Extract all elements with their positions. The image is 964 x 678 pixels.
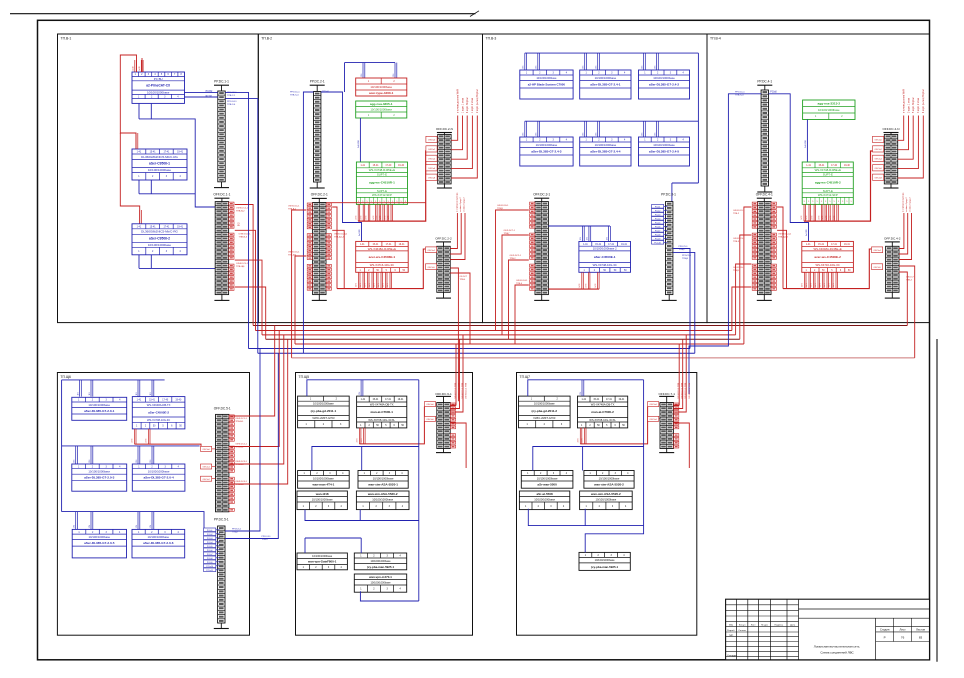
svg-text:aSer-DL385-G7-2.0-4: aSer-DL385-G7-2.0-4 [143,476,174,480]
svg-text:(cy-pba-gd-2011-1: (cy-pba-gd-2011-1 [311,409,337,413]
svg-text:10/100/1000base: 10/100/1000base [596,497,617,501]
svg-text:ТПВ-3: ТПВ-3 [906,280,913,282]
svg-text:Солоха: Солоха [738,630,746,632]
svg-text:ОФФ.DC3-1: ОФФ.DC3-1 [733,237,745,240]
svg-text:wan-vpn-GateF800-1: wan-vpn-GateF800-1 [307,560,337,564]
svg-text:aSer-C4500E-2: aSer-C4500E-2 [148,410,169,414]
svg-text:4 корп. Портал: 4 корп. Портал [467,97,469,113]
svg-text:ТПЩ7: ТПЩ7 [232,532,239,534]
svg-text:10/100/1000base: 10/100/1000base [534,497,555,501]
svg-text:ТПВ-Щ1-4: ТПВ-Щ1-4 [778,236,789,238]
svg-text:1Гб: 1Гб [654,66,656,69]
svg-text:WS-X4708-10G-3C: WS-X4708-10G-3C [147,418,170,422]
svg-text:10/100/1000base: 10/100/1000base [818,108,840,112]
svg-text:№ док: № док [761,623,767,626]
svg-text:ТПВ-2-1: ТПВ-2-1 [227,95,236,97]
svg-text:5: 5 [821,201,822,203]
svg-text:PC/a6: PC/a6 [655,226,661,228]
svg-text:10/100/1000base: 10/100/1000base [313,476,334,480]
svg-text:WS-X4712-SFP: WS-X4712-SFP [818,193,838,197]
svg-text:1-41: 1-41 [806,165,811,167]
svg-text:к серверам аренда: к серверам аренда [457,192,459,212]
svg-text:19-41: 19-41 [399,244,406,246]
svg-text:1 корп. 1 этаж: 1 корп. 1 этаж [462,98,464,113]
svg-text:ТПЩ6: ТПЩ6 [682,258,689,260]
svg-text:15-41: 15-41 [149,399,156,401]
svg-text:ТПВ-Щ1-4: ТПВ-Щ1-4 [334,236,345,238]
svg-text:ОФС/а5: ОФС/а5 [427,266,435,269]
svg-text:OFF.DC.2-N: OFF.DC.2-N [436,127,453,131]
svg-text:10/100/1000base: 10/100/1000base [148,470,170,474]
svg-text:19-41: 19-41 [398,399,405,401]
svg-text:OFF.DC.7-1: OFF.DC.7-1 [658,392,675,396]
svg-text:PC/a8: PC/a8 [207,558,213,560]
svg-text:ТПВ-4: ТПВ-4 [516,283,523,285]
svg-text:wan-t218: wan-t218 [315,492,329,496]
svg-text:ОФФ.DC1-1 ТПВ: ОФФ.DC1-1 ТПВ [454,382,457,399]
svg-text:10/100/1000base: 10/100/1000base [536,143,558,147]
svg-text:ОФС/а2: ОФС/а2 [874,148,882,151]
svg-text:1Гб: 1Гб [89,525,91,528]
svg-text:PC/a9: PC/a9 [207,562,213,564]
svg-text:1Гб: 1Гб [596,133,598,136]
svg-text:17-41: 17-41 [608,244,615,246]
svg-text:DL360G8b2NIC5-Mb/C-RG: DL360G8b2NIC5-Mb/C-RG [141,155,178,159]
svg-text:1Гб: 1Гб [583,133,585,136]
svg-text:ОФС/а0: ОФС/а0 [202,448,210,451]
svg-text:ТПВ-В-1: ТПВ-В-1 [235,421,244,423]
svg-text:2хСЕ: 2хСЕ [133,65,135,70]
svg-text:19-40: 19-40 [844,165,851,167]
svg-text:ГИП: ГИП [729,635,734,637]
svg-text:PC/a2: PC/a2 [655,210,661,212]
svg-text:1-41: 1-41 [137,152,142,154]
svg-text:ТП.Щ5: ТП.Щ5 [299,375,310,379]
svg-text:PC/a5: PC/a5 [655,222,661,224]
svg-text:ОФФ.DC4-1: ОФФ.DC4-1 [235,480,247,483]
svg-text:ОФС/а0: ОФС/а0 [426,403,434,406]
svg-text:PC/a8: PC/a8 [655,234,661,236]
svg-text:Дата: Дата [790,624,796,626]
svg-text:WS-X4748A-DB-TX: WS-X4748A-DB-TX [591,402,615,406]
svg-text:ТПВ-Щ6: ТПВ-Щ6 [288,255,297,257]
svg-text:PP.DC4-1: PP.DC4-1 [262,536,272,538]
svg-text:17-41: 17-41 [606,399,613,401]
svg-text:1Гб: 1Гб [606,237,608,240]
svg-text:ОФС/а4: ОФС/а4 [427,249,435,252]
svg-text:ТПВ-Щ6: ТПВ-Щ6 [236,266,245,268]
svg-text:17-40: 17-40 [162,399,169,401]
svg-text:1-41: 1-41 [581,399,586,401]
svg-text:WS-X4716-10G-3C: WS-X4716-10G-3C [370,263,394,267]
svg-text:VWIC-2MFT-G703: VWIC-2MFT-G703 [533,416,556,420]
svg-text:PC/a10: PC/a10 [654,242,662,244]
svg-text:1Гб: 1Гб [136,392,138,395]
svg-text:15-41: 15-41 [150,226,157,228]
svg-text:aSer-DL385-G7-2.0-3: aSer-DL385-G7-2.0-3 [84,476,115,480]
svg-text:10/100/1000base: 10/100/1000base [312,554,333,558]
svg-text:aSr-at-5508: aSr-at-5508 [537,492,554,496]
svg-text:acer-type-4260-1: acer-type-4260-1 [369,91,394,95]
svg-text:2х10ГЕ: 2х10ГЕ [806,229,808,236]
svg-text:ТП.В-1: ТП.В-1 [61,36,72,40]
svg-text:ТПВ-В-2: ТПВ-В-2 [235,446,244,448]
svg-text:WS-X6708-10G-3CXL: WS-X6708-10G-3CXL [589,418,616,422]
svg-text:ОФС/а0: ОФС/а0 [874,139,882,142]
svg-text:10/100/1000base: 10/100/1000base [312,497,333,501]
svg-text:ОФФ.DC6-1: ОФФ.DC6-1 [733,266,745,269]
svg-text:ТП.В-3: ТП.В-3 [486,36,497,40]
svg-text:DL360G8b2NIC5-Mb/C-RG: DL360G8b2NIC5-Mb/C-RG [141,230,178,234]
svg-text:ОФС/а8: ОФС/а8 [428,176,436,179]
svg-text:OFF.DC.2-1: OFF.DC.2-1 [311,193,328,197]
svg-text:1Гб: 1Гб [77,392,79,395]
svg-text:5 корп. Портал: 5 корп. Портал [913,97,915,113]
svg-text:2х10GE: 2х10GE [358,140,360,148]
svg-text:PP.DC.3-1: PP.DC.3-1 [661,193,676,197]
svg-text:ОФС/а4: ОФС/а4 [874,157,882,160]
svg-text:ТП.Щ6: ТП.Щ6 [60,375,71,379]
svg-text:17-41: 17-41 [386,244,393,246]
svg-text:10/100/1000base: 10/100/1000base [653,143,675,147]
svg-text:Изм: Изм [729,624,734,626]
svg-text:10/100/1000base: 10/100/1000base [147,535,169,539]
svg-text:стойка 6 ряд 2: стойка 6 ряд 2 [462,197,465,212]
svg-text:5: 5 [842,201,843,203]
svg-text:4 корп. (шлюз) Портал: 4 корп. (шлюз) Портал [923,88,925,113]
svg-text:1Гб: 1Гб [596,66,598,69]
svg-text:10/100/1000base 2: 10/100/1000base 2 [593,247,617,251]
svg-text:ОФС/а0: ОФС/а0 [650,418,658,421]
svg-text:1-41: 1-41 [806,244,811,246]
svg-text:1Гб: 1Гб [523,133,525,136]
svg-text:1Гб: 1Гб [641,66,643,69]
svg-text:ОФФ.DC3-1: ОФФ.DC3-1 [239,232,252,235]
svg-text:к серверам аренда: к серверам аренда [903,192,905,212]
svg-text:10/100/1000base: 10/100/1000base [599,476,620,480]
svg-text:ОФФ.DC5-1: ОФФ.DC5-1 [236,262,249,265]
svg-text:PC BU: PC BU [154,77,163,81]
svg-text:19-41: 19-41 [621,244,628,246]
svg-text:aSer-DL385-G7-2.4-5: aSer-DL385-G7-2.4-5 [649,149,680,153]
svg-text:1Гб: 1Гб [89,392,91,395]
svg-text:ОФФ.DC1-4-1: ОФФ.DC1-4-1 [778,232,792,235]
svg-text:man-at-C7600-2: man-at-C7600-2 [591,410,614,414]
svg-text:ТПЩ5: ТПЩ5 [733,270,740,272]
svg-text:OFF.DC.4-2: OFF.DC.4-2 [884,236,901,240]
svg-text:PP.DC1-1: PP.DC1-1 [735,92,745,94]
svg-text:PP.DC3-1: PP.DC3-1 [232,529,242,531]
svg-text:WS-X6708-10G-3CXL: WS-X6708-10G-3CXL [368,418,395,422]
svg-text:1Гб: 1Гб [654,133,656,136]
svg-text:ОФФ.DC2-1 ТПВ: ОФФ.DC2-1 ТПВ [684,382,687,399]
svg-text:ОФС/а8: ОФС/а8 [874,176,882,179]
svg-text:10/100/1000base: 10/100/1000base [373,476,394,480]
svg-text:aSer-DL385-G7-2.4-3: aSer-DL385-G7-2.4-3 [531,149,562,153]
svg-text:aSer-DL385-G7-2.0-6: aSer-DL385-G7-2.0-6 [143,541,174,545]
svg-text:ТПЩ6: ТПЩ6 [679,249,686,251]
svg-text:Локальная вычислительная сеть.: Локальная вычислительная сеть. [814,645,861,649]
svg-text:10/100/1000base: 10/100/1000base [595,76,617,80]
svg-text:aSer-DL385-G7-2.4-2: aSer-DL385-G7-2.4-2 [649,82,680,86]
svg-text:стойка 6 ряд 2: стойка 6 ряд 2 [908,197,911,212]
svg-text:ТПВ-В-1: ТПВ-В-1 [288,209,297,211]
svg-text:PC/a5: PC/a5 [207,546,213,548]
svg-text:10/100/1000base: 10/100/1000base [88,403,110,407]
svg-text:1-41: 1-41 [583,244,588,246]
svg-text:1-41: 1-41 [137,399,142,401]
svg-text:ТП.В-4: ТП.В-4 [710,36,721,40]
svg-text:ОФС/а4: ОФС/а4 [873,249,881,252]
svg-text:a2-PlineCAT-CX: a2-PlineCAT-CX [146,84,171,88]
svg-text:1Гб: 1Гб [641,133,643,136]
svg-text:1-41: 1-41 [360,165,365,167]
svg-text:к точкам доступа Wi-Fi: к точкам доступа Wi-Fi [458,88,460,113]
svg-text:aSer-DL385-G7-2.4-4: aSer-DL385-G7-2.4-4 [590,149,621,153]
svg-text:WS-X4748-10G-3C: WS-X4748-10G-3C [593,263,617,267]
svg-text:5: 5 [851,201,852,203]
svg-text:1Гб: 1Гб [523,66,525,69]
svg-text:10/100/1000base: 10/100/1000base [595,558,616,562]
svg-text:ТПВ-В-3: ТПВ-В-3 [235,464,244,466]
svg-text:1Гб: 1Гб [150,460,152,463]
svg-text:PC/a7: PC/a7 [207,554,213,556]
svg-text:5: 5 [829,201,830,203]
svg-text:ТПВ-3-4: ТПВ-3-4 [227,104,236,106]
svg-text:3 корп. 2 этаж: 3 корп. 2 этаж [918,98,920,113]
svg-text:Р: Р [884,635,886,639]
svg-text:ОФ.DC7: ОФ.DC7 [906,276,915,279]
svg-text:(cy-pba-man-5925-1: (cy-pba-man-5925-1 [591,565,619,569]
svg-text:PC/a9: PC/a9 [655,238,661,240]
svg-text:OFF.DC.3-1: OFF.DC.3-1 [533,193,550,197]
svg-text:17-41: 17-41 [831,244,838,246]
svg-text:agg-ws-C4510R-1: agg-ws-C4510R-1 [369,181,395,185]
svg-text:ОФФ.DC1-4-1: ОФФ.DC1-4-1 [334,232,348,235]
svg-text:PP.DC.1-1: PP.DC.1-1 [214,80,229,84]
svg-text:1-41: 1-41 [360,244,365,246]
svg-text:19-40: 19-40 [175,399,182,401]
svg-text:a2-HP Blade System C7000: a2-HP Blade System C7000 [528,82,566,86]
svg-text:aSer-C4500E-1: aSer-C4500E-1 [594,255,616,259]
svg-text:WS-X4648A-DB-TX: WS-X4648A-DB-TX [147,403,171,407]
svg-text:ТПВ-В-3: ТПВ-В-3 [239,236,248,238]
svg-text:1Гб: 1Гб [580,237,582,240]
svg-text:PC/a7: PC/a7 [655,230,661,232]
svg-text:10/100/1000base: 10/100/1000base [595,143,617,147]
svg-text:PC/a4: PC/a4 [207,542,213,544]
svg-text:PP.DC5-1: PP.DC5-1 [682,255,692,257]
svg-text:WS-X4648A-RJ45E+E: WS-X4648A-RJ45E+E [813,247,841,251]
svg-text:ОФФ.DC1-1 ТПВ: ОФФ.DC1-1 ТПВ [457,382,460,399]
svg-text:1Гб: 1Гб [580,392,582,395]
svg-text:10/100/1000base: 10/100/1000base [313,402,334,406]
svg-text:SUP7-E: SUP7-E [823,172,833,176]
svg-text:1Гб: 1Гб [536,133,538,136]
svg-text:ОФФ.DC6-1: ОФФ.DC6-1 [497,204,509,207]
svg-text:10/100/1000base: 10/100/1000base [370,580,391,584]
svg-text:5: 5 [834,201,835,203]
svg-text:acer-ws-C4506E-1: acer-ws-C4506E-1 [369,255,396,259]
svg-text:ОФС/а2: ОФС/а2 [428,148,436,151]
svg-text:10/100/1000base: 10/100/1000base [536,76,557,80]
svg-text:19-41: 19-41 [844,244,851,246]
svg-text:10/100/1000base: 10/100/1000base [88,535,110,539]
svg-text:ОФС/а6: ОФС/а6 [428,167,436,170]
svg-text:1Гб: 1Гб [583,66,585,69]
svg-text:к точкам доступа Wi-Fi: к точкам доступа Wi-Fi [904,88,906,113]
svg-text:1Гб: 1Гб [150,392,152,395]
svg-text:PC/a10: PC/a10 [206,566,214,568]
svg-text:10/100/1000base: 10/100/1000base [537,476,558,480]
svg-text:acer-ws-C4506E-2: acer-ws-C4506E-2 [814,255,841,259]
svg-text:OFF.DC.5-1: OFF.DC.5-1 [214,407,231,411]
svg-text:ОФ.DC7: ОФ.DC7 [460,275,469,278]
svg-text:ОФФ.DC7-1: ОФФ.DC7-1 [504,229,516,232]
svg-text:15-41: 15-41 [593,399,600,401]
svg-text:wan-man-4T4-1: wan-man-4T4-1 [311,483,334,487]
svg-text:(cy-pba-man-5925-1: (cy-pba-man-5925-1 [367,565,395,569]
svg-text:Лист: Лист [900,627,907,631]
svg-text:ОФС/а0: ОФС/а0 [426,418,434,421]
svg-text:10/100/1000base: 10/100/1000base [147,90,170,94]
svg-text:agg-nsa-3305-1: agg-nsa-3305-1 [370,102,393,106]
svg-text:10/100/1000base: 10/100/1000base [148,243,172,247]
svg-text:10/100/1000base: 10/100/1000base [370,559,391,563]
svg-text:(cy-pba-gd-2011-2: (cy-pba-gd-2011-2 [532,409,558,413]
svg-text:WS-X4648A-RJ45E+E: WS-X4648A-RJ45E+E [368,247,396,251]
svg-text:ТПВ-2: ТПВ-2 [510,258,517,260]
svg-text:PC/a4: PC/a4 [655,218,661,220]
svg-text:19-41: 19-41 [177,226,184,228]
svg-text:1Гб: 1Гб [536,66,538,69]
svg-text:1Гб: 1Гб [587,237,589,240]
svg-text:SUP7-E: SUP7-E [377,172,387,176]
svg-text:PC/a0: PC/a0 [770,92,777,94]
svg-text:Схема соединений ЛВС: Схема соединений ЛВС [820,651,854,655]
svg-text:ОФФ.DC3-1: ОФФ.DC3-1 [235,460,247,463]
svg-text:ОФФ.DC4-1: ОФФ.DC4-1 [516,279,528,282]
svg-text:VWIC-2MFT-G703: VWIC-2MFT-G703 [312,416,335,420]
svg-text:Листов: Листов [916,627,926,631]
svg-text:PC/a1: PC/a1 [655,206,661,208]
svg-text:OFF.DC.4-N: OFF.DC.4-N [882,127,899,131]
svg-text:PP.DC.4-1: PP.DC.4-1 [757,80,772,84]
svg-text:17-41: 17-41 [163,226,170,228]
svg-text:17-41: 17-41 [385,399,392,401]
svg-text:10/100/1000base: 10/100/1000base [148,168,172,172]
svg-text:wan-sim-ASA-5520-2: wan-sim-ASA-5520-2 [367,492,398,496]
svg-text:PP.DC.2-1: PP.DC.2-1 [310,80,325,84]
svg-text:Лист: Лист [751,624,756,626]
svg-text:1Гб: 1Гб [136,460,138,463]
svg-text:10/100/1000base: 10/100/1000base [534,402,555,406]
svg-text:WS-X4712-SFP: WS-X4712-SFP [372,193,392,197]
svg-text:15-41: 15-41 [818,165,825,167]
svg-text:2х10GE: 2х10GE [805,140,807,148]
svg-text:5: 5 [808,201,809,203]
svg-text:1Гб: 1Гб [89,460,91,463]
svg-text:1Гб: 1Гб [136,525,138,528]
svg-text:wan-sim-ASA-5520-2: wan-sim-ASA-5520-2 [593,483,624,487]
svg-text:aSer-C9506-1: aSer-C9506-1 [149,162,170,166]
svg-text:OFF.DC.1-1: OFF.DC.1-1 [213,193,230,197]
svg-text:10/100/1000base: 10/100/1000base [653,76,675,80]
svg-text:17-41: 17-41 [163,152,170,154]
svg-text:man-at-C7600-1: man-at-C7600-1 [371,410,394,414]
svg-text:ОФФ.DC1-1 ТПВ: ОФФ.DC1-1 ТПВ [465,382,468,399]
svg-text:10/100/1000base: 10/100/1000base [370,85,392,89]
svg-text:1Гб: 1Гб [359,392,361,395]
svg-text:15-41: 15-41 [595,244,602,246]
svg-text:agg-ws-C4510R-2: agg-ws-C4510R-2 [815,181,841,185]
svg-text:5: 5 [846,201,847,203]
svg-text:Кол.уч: Кол.уч [739,624,746,626]
svg-text:agg-nsa-3313-2: agg-nsa-3313-2 [818,101,841,105]
svg-text:3 корп. 1 этаж: 3 корп. 1 этаж [908,98,910,113]
svg-text:PP.DC5-1: PP.DC5-1 [679,246,689,248]
svg-text:aSer-DL385-G7-2.4-1: aSer-DL385-G7-2.4-1 [590,82,621,86]
svg-text:PC/a3: PC/a3 [207,538,213,540]
svg-text:ОФФ.DC2-1: ОФФ.DC2-1 [510,254,522,257]
svg-text:2хСЕ: 2хСЕ [139,65,141,70]
svg-text:aSr-wan-5500: aSr-wan-5500 [537,483,557,487]
svg-text:ТПВ-В-4: ТПВ-В-4 [235,484,244,486]
svg-text:Подпись: Подпись [774,624,784,626]
svg-text:WS-X4748A-DB-TX: WS-X4748A-DB-TX [370,402,394,406]
svg-text:17-40: 17-40 [385,165,392,167]
svg-text:1-41: 1-41 [137,226,142,228]
svg-text:ОФС/а0: ОФС/а0 [650,403,658,406]
svg-text:PC/a3: PC/a3 [655,214,661,216]
svg-text:PC/a1: PC/a1 [207,530,213,532]
svg-text:1Гб: 1Гб [150,525,152,528]
svg-text:PP.DC1-1: PP.DC1-1 [290,92,300,94]
svg-text:PP.DC4-1: PP.DC4-1 [227,101,237,103]
svg-text:aSer-DL385-G7-2.0-1: aSer-DL385-G7-2.0-1 [84,409,115,413]
svg-text:ТПВ-В-2: ТПВ-В-2 [236,211,245,213]
svg-text:ОФС/а1: ОФС/а1 [202,466,210,469]
svg-text:ОФФ.DC2-1: ОФФ.DC2-1 [733,209,745,212]
svg-text:2х10ГЕ: 2х10ГЕ [359,229,361,236]
svg-text:ОФФ.DC2-1 ТПВ: ОФФ.DC2-1 ТПВ [677,382,680,399]
svg-text:ТПВ-3: ТПВ-3 [733,241,740,243]
svg-text:OFF.DC.6-1: OFF.DC.6-1 [435,392,452,396]
svg-text:15-41: 15-41 [372,399,379,401]
svg-text:ТПВ-Х-4: ТПВ-Х-4 [290,95,299,97]
svg-text:стойка 4 ряд 2: стойка 4 ряд 2 [459,197,462,212]
svg-text:1Гб: 1Гб [361,74,363,77]
svg-text:ТП.Щ7: ТП.Щ7 [520,375,531,379]
svg-text:17-40: 17-40 [831,165,838,167]
svg-text:ОФС/а0: ОФС/а0 [428,139,436,142]
svg-text:19-41: 19-41 [177,152,184,154]
svg-text:PP.DC.5-1: PP.DC.5-1 [214,518,229,522]
svg-text:ТПВ-4: ТПВ-4 [460,279,467,281]
svg-text:wan-vpn-d-270-1: wan-vpn-d-270-1 [368,575,392,579]
svg-text:ОФС/а6: ОФС/а6 [874,167,882,170]
svg-text:стойка 4 ряд 2: стойка 4 ряд 2 [905,197,908,212]
svg-text:19-40: 19-40 [398,165,405,167]
svg-text:Утвердил: Утвердил [727,655,737,657]
svg-text:ТПВ-Х-4: ТПВ-Х-4 [735,95,744,97]
svg-text:aSer-C9506-2: aSer-C9506-2 [149,236,170,240]
svg-text:ТПЩ5: ТПЩ5 [497,208,504,210]
svg-text:1Гб: 1Гб [74,525,76,528]
svg-text:10/100/1000base: 10/100/1000base [370,107,392,111]
svg-text:1Гб: 1Гб [74,460,76,463]
svg-text:WS-X4716-10G-3C: WS-X4716-10G-3C [815,263,839,267]
